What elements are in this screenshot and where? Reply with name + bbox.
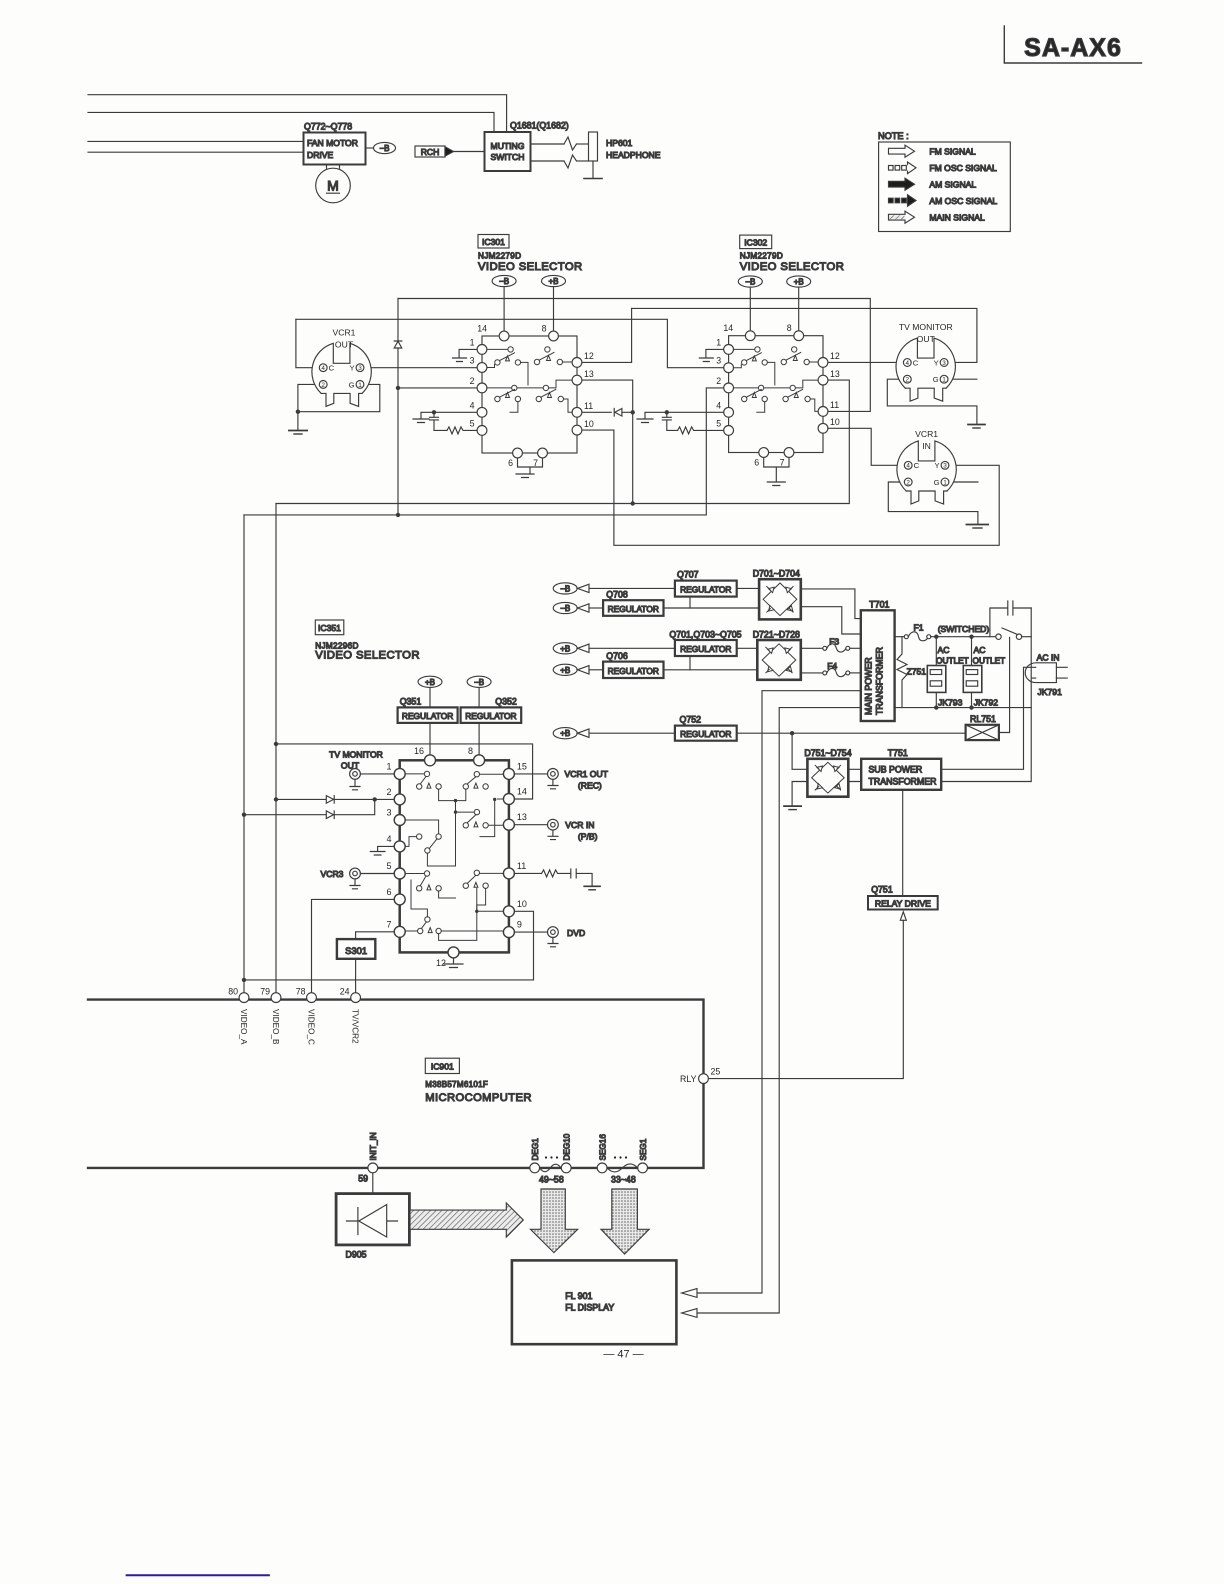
svg-text:OUT: OUT — [335, 340, 354, 350]
microcomputer body bus — [88, 1000, 704, 1168]
svg-text:FM SIGNAL: FM SIGNAL — [929, 147, 976, 157]
svg-text:IC901: IC901 — [431, 1062, 454, 1072]
svg-text:AM OSC SIGNAL: AM OSC SIGNAL — [929, 196, 997, 206]
svg-text:M: M — [327, 178, 339, 194]
svg-text:78: 78 — [296, 987, 306, 997]
svg-text:16: 16 — [414, 746, 424, 756]
svg-text:8: 8 — [542, 324, 547, 334]
title block SA-AX6 — [1004, 26, 1141, 63]
svg-text:Q351: Q351 — [400, 696, 422, 706]
svg-text:REGULATOR: REGULATOR — [402, 711, 453, 721]
hatched arrow SEG to FL — [601, 1189, 649, 1254]
wire fan input 2 — [88, 151, 304, 153]
svg-text:1: 1 — [716, 338, 721, 348]
svg-text:80: 80 — [228, 987, 238, 997]
svg-text:Q352: Q352 — [495, 696, 517, 706]
svg-text:D701~D704: D701~D704 — [753, 569, 800, 579]
svg-text:3: 3 — [358, 365, 362, 372]
blue separator line — [127, 1574, 269, 1576]
svg-text:AC: AC — [974, 645, 986, 655]
svg-text:RELAY DRIVE: RELAY DRIVE — [875, 898, 931, 908]
wire bridge D701 to transformer — [801, 589, 861, 634]
svg-text:AC: AC — [938, 645, 950, 655]
FM signal arrow — [889, 145, 915, 157]
svg-text:11: 11 — [584, 401, 593, 411]
wire Q707-Q708 stub — [689, 597, 691, 608]
svg-text:4: 4 — [470, 401, 475, 411]
svg-text:MAIN SIGNAL: MAIN SIGNAL — [929, 213, 985, 223]
bridge rectifier D721~D728 — [753, 629, 801, 680]
svg-text:HEADPHONE: HEADPHONE — [606, 150, 661, 160]
+B oval IC302 — [787, 276, 811, 331]
wire TV monitor Y bus (IC301 pin12) — [632, 308, 977, 362]
wire bus 515 (pin2 net) — [244, 388, 724, 515]
pin 24 circle — [351, 993, 361, 1003]
svg-text:VIDEO_C: VIDEO_C — [307, 1009, 316, 1045]
svg-text:12: 12 — [436, 958, 446, 968]
TV MONITOR OUT rca jack — [329, 750, 394, 790]
DEG pins — [530, 1133, 572, 1184]
diode D351 — [326, 796, 334, 804]
svg-text:NOTE :: NOTE : — [878, 131, 909, 141]
IC301 pin6/7 ground — [516, 458, 543, 478]
svg-text:3: 3 — [943, 463, 947, 470]
svg-text:+B: +B — [794, 278, 804, 287]
svg-text:13: 13 — [584, 369, 594, 379]
DVD rca jack — [514, 927, 585, 947]
svg-text:Y: Y — [934, 358, 939, 367]
junction dots power — [790, 635, 974, 736]
wire fan input 1 — [88, 140, 304, 142]
rotated port names — [239, 1009, 360, 1045]
svg-text:OUTLET: OUTLET — [973, 656, 1006, 666]
svg-text:REGULATOR: REGULATOR — [680, 644, 731, 654]
svg-text:MICROCOMPUTER: MICROCOMPUTER — [425, 1092, 532, 1104]
bridge rectifier D701~D704 — [753, 569, 801, 620]
svg-text:−B: −B — [560, 584, 570, 593]
wire top bus 2 — [88, 112, 494, 132]
svg-text:8: 8 — [468, 746, 473, 756]
svg-text:VCR1 OUT: VCR1 OUT — [565, 769, 609, 779]
svg-text:7: 7 — [386, 920, 391, 930]
svg-text:+B: +B — [425, 678, 435, 687]
IC302 label box — [740, 235, 845, 273]
svg-text:15: 15 — [517, 762, 527, 772]
svg-text:VIDEO SELECTOR: VIDEO SELECTOR — [315, 650, 420, 662]
-B supply oval (fan) — [374, 142, 396, 153]
VCR1 OUT (REC) rca jack — [514, 769, 608, 791]
svg-text:10: 10 — [830, 417, 840, 427]
svg-text:C: C — [913, 358, 919, 367]
-B oval IC302 — [738, 276, 762, 331]
svg-text:1: 1 — [943, 479, 947, 486]
diode D352 — [326, 811, 334, 819]
fuse F1 — [895, 623, 996, 641]
IC301 pin numbers — [470, 324, 594, 469]
regulator Q352 — [461, 696, 522, 723]
svg-text:5: 5 — [716, 419, 721, 429]
svg-text:RCH: RCH — [421, 147, 440, 157]
svg-text:+B: +B — [548, 277, 558, 286]
svg-text:4: 4 — [716, 401, 721, 411]
svg-text:VCR3: VCR3 — [321, 869, 344, 879]
svg-text:FAN MOTOR: FAN MOTOR — [307, 138, 358, 148]
wire diode row to pin2 — [276, 798, 394, 800]
wire pin10 to VIDEO_A — [244, 911, 534, 980]
svg-text:11: 11 — [517, 861, 526, 871]
FL display FL901 — [512, 1260, 677, 1344]
svg-text:DRIVE: DRIVE — [307, 150, 334, 160]
-B oval Q707 row — [553, 583, 675, 594]
svg-text:G: G — [933, 375, 939, 384]
wire VCR1OUT C pin — [296, 319, 319, 367]
svg-text:DVD: DVD — [567, 928, 585, 938]
fuse F4 — [801, 661, 861, 677]
svg-text:VIDEO_B: VIDEO_B — [271, 1009, 280, 1045]
svg-text:G: G — [349, 380, 355, 389]
pin11 RC to ground — [514, 869, 600, 890]
svg-text:3: 3 — [470, 356, 475, 366]
svg-text:REGULATOR: REGULATOR — [680, 729, 731, 739]
svg-text:AC IN: AC IN — [1037, 653, 1060, 663]
hatched arrow D905 to FL — [410, 1203, 523, 1237]
svg-text:4: 4 — [386, 834, 391, 844]
svg-text:3: 3 — [716, 356, 721, 366]
wire pin6 to pin78 — [312, 899, 395, 992]
+B oval Q706 row — [553, 664, 603, 675]
svg-text:14: 14 — [723, 323, 733, 333]
IC351 body outline — [400, 760, 509, 952]
svg-text:25: 25 — [711, 1067, 721, 1077]
svg-text:Q752: Q752 — [680, 715, 702, 725]
svg-text:8: 8 — [787, 323, 792, 333]
svg-text:VCR1: VCR1 — [333, 328, 356, 338]
RCH signal tag — [415, 146, 454, 157]
IC351 label box — [315, 620, 420, 662]
IC351 pin numbers — [386, 746, 526, 968]
wire AC IN to sub transformer — [941, 667, 1035, 769]
regulator Q752 — [675, 715, 737, 741]
svg-text:INIT_IN: INIT_IN — [369, 1132, 378, 1160]
ground (D751) — [784, 805, 801, 807]
svg-text:Y: Y — [350, 364, 355, 373]
svg-text:SEG1: SEG1 — [639, 1138, 648, 1160]
svg-text:JK792: JK792 — [974, 697, 999, 707]
svg-text:12: 12 — [830, 351, 840, 361]
svg-text:SEG16: SEG16 — [599, 1134, 608, 1161]
svg-text:S301: S301 — [345, 945, 367, 956]
svg-text:C: C — [329, 364, 335, 373]
IC302 internals — [734, 347, 818, 413]
svg-text:Q708: Q708 — [606, 590, 628, 600]
svg-text:1: 1 — [942, 377, 946, 384]
IC301 label box — [478, 235, 583, 274]
svg-text:TRANSFORMER: TRANSFORMER — [869, 777, 937, 787]
svg-text:AM SIGNAL: AM SIGNAL — [929, 180, 976, 190]
svg-text:Y: Y — [935, 461, 940, 470]
wire IC302 pin12 to TV monitor C — [828, 361, 904, 363]
svg-text:9: 9 — [517, 920, 522, 930]
junction dots — [396, 386, 635, 517]
IC302 pin circles — [724, 331, 828, 458]
wire break V — [564, 137, 577, 150]
MAIN signal arrow — [889, 211, 915, 223]
relay RL751 — [737, 638, 1010, 741]
svg-text:(REC): (REC) — [578, 781, 602, 791]
svg-text:Q706: Q706 — [606, 651, 628, 661]
svg-text:HP601: HP601 — [606, 138, 632, 148]
svg-text:2: 2 — [386, 787, 391, 797]
svg-text:24: 24 — [340, 987, 350, 997]
wire Q701-Q706 stub — [689, 656, 691, 670]
wire IC302 pin10 to VCR1 IN C — [828, 428, 904, 465]
svg-text:4: 4 — [321, 365, 325, 372]
svg-text:Q772~Q778: Q772~Q778 — [304, 122, 352, 132]
svg-text:−B: −B — [379, 144, 389, 153]
arrow into relay drive — [900, 912, 906, 921]
svg-text:TV MONITOR: TV MONITOR — [329, 750, 383, 760]
svg-text:RL751: RL751 — [970, 714, 996, 724]
IC901 label box — [425, 1058, 532, 1104]
svg-text:MUTING: MUTING — [491, 141, 525, 151]
svg-text:DEG10: DEG10 — [563, 1133, 572, 1160]
AC outlet 2 JK792 — [963, 637, 1005, 708]
svg-text:TV MONITOR: TV MONITOR — [899, 322, 953, 332]
IC302 pin1 ground — [699, 349, 723, 361]
svg-text:SA-AX6: SA-AX6 — [1024, 34, 1122, 62]
svg-text:14: 14 — [517, 787, 527, 797]
motor M601 — [316, 165, 351, 203]
svg-text:OUTLET: OUTLET — [936, 656, 969, 666]
svg-text:3: 3 — [942, 360, 946, 367]
svg-text:FL DISPLAY: FL DISPLAY — [565, 1303, 614, 1313]
fuse F3 — [801, 637, 861, 653]
IC302 pin6/7 ground — [764, 457, 789, 485]
svg-text:+B: +B — [560, 729, 570, 738]
pin number labels — [228, 987, 349, 997]
AC outlet 1 JK793 — [927, 637, 968, 708]
wire Q701 reg to bridge — [737, 647, 758, 649]
svg-text:VIDEO SELECTOR: VIDEO SELECTOR — [740, 261, 845, 273]
svg-text:(SWITCHED): (SWITCHED) — [938, 624, 990, 634]
svg-text:IC351: IC351 — [318, 623, 341, 633]
IC302 pin numbers — [716, 323, 840, 467]
svg-text:F4: F4 — [827, 661, 837, 671]
IC301 pin circles — [477, 331, 582, 458]
svg-text:5: 5 — [470, 419, 475, 429]
svg-text:11: 11 — [830, 400, 839, 410]
IC302 body outline — [729, 336, 823, 453]
svg-text:T701: T701 — [869, 600, 889, 610]
svg-text:10: 10 — [584, 419, 594, 429]
wire diode column x398 — [397, 299, 399, 515]
svg-text:Q701,Q703~Q705: Q701,Q703~Q705 — [669, 629, 741, 639]
svg-text:−B: −B — [745, 278, 755, 287]
svg-text:14: 14 — [477, 324, 487, 334]
svg-text:2: 2 — [470, 376, 475, 386]
regulator Q708 — [603, 590, 663, 616]
-B oval IC301 — [492, 275, 516, 331]
svg-text:−B: −B — [474, 678, 484, 687]
svg-text:VIDEO SELECTOR: VIDEO SELECTOR — [478, 261, 583, 273]
IC351 pin4 ground — [370, 846, 394, 855]
wire sub transformer to relay drive — [902, 790, 904, 896]
muting switch block Q1681(Q1682) — [485, 121, 569, 172]
junction dots IC351 — [242, 742, 377, 982]
wire bridge D751 to sub transformer — [848, 769, 861, 781]
svg-text:VCR IN: VCR IN — [565, 820, 594, 830]
svg-text:33~48: 33~48 — [611, 1175, 636, 1185]
wire VIDEO_B branch (bus503 to pin79/pin14) — [275, 504, 277, 993]
svg-text:REGULATOR: REGULATOR — [680, 585, 731, 595]
svg-text:REGULATOR: REGULATOR — [608, 604, 659, 614]
+B oval Q752 row — [553, 728, 675, 739]
wire IC301 pin11 diode branch — [582, 411, 633, 413]
IC302 pin4 RC network — [637, 410, 724, 434]
wire IC301 pin13 to bus503 — [582, 380, 633, 503]
svg-text:TV/VCR2: TV/VCR2 — [351, 1009, 360, 1044]
FL input arrow 1 — [682, 1289, 697, 1298]
svg-text:FM OSC SIGNAL: FM OSC SIGNAL — [929, 163, 997, 173]
FL input arrow 2 — [682, 1309, 697, 1318]
svg-text:SUB POWER: SUB POWER — [869, 765, 923, 775]
svg-text:FL 901: FL 901 — [565, 1291, 592, 1301]
bridge rectifier D751~D754 — [804, 748, 851, 797]
wire Q708 reg to bridge — [664, 607, 760, 609]
svg-text:MAIN POWER: MAIN POWER — [864, 657, 874, 715]
wire VCR1OUT shield bracket — [298, 384, 380, 430]
wire break ^ — [564, 155, 577, 168]
-B oval Q708 row — [553, 602, 603, 613]
svg-text:F3: F3 — [829, 637, 839, 647]
svg-text:1: 1 — [470, 338, 475, 348]
+B oval IC301 — [542, 275, 566, 331]
regulator Q701,Q703~Q705 — [669, 629, 741, 656]
svg-text:IC301: IC301 — [482, 237, 505, 247]
RLY pin 25 — [680, 1067, 720, 1085]
svg-text:Q751: Q751 — [871, 885, 893, 895]
wire muting to headphone ring — [531, 160, 565, 162]
svg-text:13: 13 — [830, 369, 840, 379]
VCR IN (P/B) rca jack — [514, 819, 597, 841]
svg-text:OUT: OUT — [917, 334, 936, 344]
svg-text:+B: +B — [560, 666, 570, 675]
wire muting to headphone tip — [531, 143, 565, 145]
svg-text:Q707: Q707 — [677, 570, 699, 580]
note legend box — [878, 131, 1010, 232]
wire bus 503 (pin13 net) — [276, 380, 849, 503]
svg-text:6: 6 — [508, 458, 513, 468]
hatched arrow DEG to FL — [531, 1189, 578, 1253]
svg-text:2: 2 — [906, 479, 910, 486]
svg-text:IN: IN — [922, 441, 931, 451]
svg-text:−B: −B — [560, 604, 570, 613]
wire RCH to muting switch — [454, 151, 485, 153]
svg-text:REGULATOR: REGULATOR — [608, 666, 659, 676]
svg-text:D905: D905 — [346, 1250, 367, 1260]
svg-text:T751: T751 — [888, 748, 908, 758]
svg-text:IC302: IC302 — [744, 237, 767, 247]
svg-text:RLY: RLY — [680, 1074, 697, 1084]
wire transformer y707 to FL arrow2 — [697, 708, 861, 1313]
IC301 internals — [488, 347, 572, 413]
connector TV MONITOR OUT — [887, 322, 985, 428]
svg-text:JK793: JK793 — [938, 697, 963, 707]
diode D302 (left) — [614, 409, 622, 417]
svg-text:13: 13 — [517, 812, 527, 822]
svg-text:G: G — [934, 478, 940, 487]
FM OSC signal arrow — [889, 162, 917, 174]
diode D301 (upward) — [394, 341, 402, 348]
regulator Q707 — [675, 570, 737, 597]
svg-text:F1: F1 — [914, 623, 924, 633]
pin 79 circle — [271, 993, 281, 1003]
svg-text:D751~D754: D751~D754 — [804, 748, 851, 758]
wire Q707 reg to bridge — [737, 587, 759, 589]
wire bridge D751 lower to ground — [792, 782, 807, 806]
svg-text:3: 3 — [386, 808, 391, 818]
svg-text:7: 7 — [780, 458, 785, 468]
SEG pins — [597, 1134, 648, 1185]
wire S301 to pin24 — [355, 959, 357, 992]
connector VCR1 OUT — [312, 328, 371, 407]
svg-text:SWITCH: SWITCH — [491, 152, 525, 162]
ground (VCR1 OUT) — [289, 430, 307, 432]
regulator Q351 — [398, 696, 458, 723]
varistor Z751 — [897, 637, 926, 708]
wire Q706 reg to bridge — [664, 669, 758, 671]
svg-text:−B: −B — [499, 277, 509, 286]
IC301 pin4 RC network — [413, 410, 477, 434]
svg-text:79: 79 — [260, 987, 270, 997]
svg-text:6: 6 — [754, 458, 759, 468]
+B oval IC351 — [418, 676, 442, 755]
+B oval Q701 row — [553, 643, 675, 654]
IC301 body outline — [482, 336, 577, 453]
svg-text:— 47 —: — 47 — — [603, 1349, 643, 1361]
wire bus B (VCR1OUT C to IC302 pin3) — [296, 319, 724, 367]
wire IC301 pin10 to VCR1 IN Y — [582, 430, 999, 545]
svg-text:+B: +B — [560, 644, 570, 653]
svg-text:2: 2 — [716, 376, 721, 386]
svg-text:4: 4 — [906, 360, 910, 367]
wire bus A (IC302 pin11 net) — [398, 299, 870, 412]
pin 78 circle — [307, 993, 317, 1003]
wire IC301 pin2 — [398, 387, 477, 389]
wire lower diode row — [244, 799, 375, 814]
-B oval IC351 — [467, 676, 491, 755]
svg-text:NJM2279D: NJM2279D — [740, 252, 783, 261]
connector VCR1 IN — [888, 429, 988, 528]
capacitor across switch — [990, 601, 1031, 637]
pin 80 circle — [239, 993, 249, 1003]
wire VIDEO_A branch (bus515 to pin80) — [243, 515, 245, 992]
svg-text:6: 6 — [386, 887, 391, 897]
svg-text:M38B57M6101F: M38B57M6101F — [425, 1080, 488, 1089]
svg-text:D721~D728: D721~D728 — [753, 629, 800, 639]
sub power transformer T751 — [861, 748, 941, 790]
svg-text:12: 12 — [584, 351, 594, 361]
wire Q752 bus to bridge D751 — [792, 733, 807, 769]
AC IN plug JK791 — [1025, 653, 1067, 697]
svg-text:Q1681(Q1682): Q1681(Q1682) — [510, 121, 569, 131]
wire IC301 pin12 stub — [582, 308, 632, 362]
svg-text:49~58: 49~58 — [539, 1175, 564, 1185]
svg-text:2: 2 — [906, 377, 910, 384]
wire fan to -B — [366, 147, 374, 149]
IC351 internals — [405, 771, 503, 940]
svg-text:C: C — [914, 461, 920, 470]
